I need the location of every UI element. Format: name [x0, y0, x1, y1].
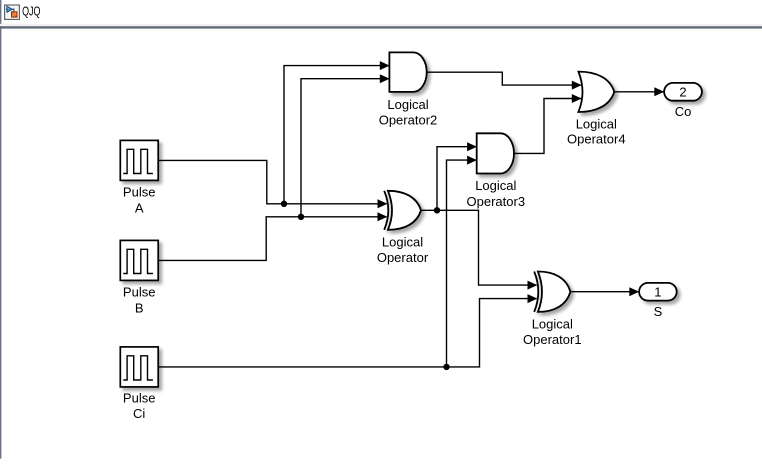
arrowhead XOR in1: [378, 199, 388, 208]
svg-text:Logical: Logical: [576, 116, 617, 131]
svg-text:Pulse: Pulse: [123, 185, 156, 200]
svg-text:Co: Co: [675, 104, 692, 119]
wire branch junction A to AND2 in1: [284, 66, 389, 204]
svg-text:Logical: Logical: [475, 178, 516, 193]
svg-text:2: 2: [679, 84, 686, 99]
arrowhead XOR1 in1: [528, 281, 538, 290]
svg-text:Operator: Operator: [377, 250, 429, 265]
svg-text:Pulse: Pulse: [123, 285, 156, 300]
wire AND3 out to OR4 in2: [514, 99, 581, 154]
arrowhead outport S: [629, 287, 639, 296]
wire XOR1 out to outport S: [570, 291, 638, 293]
wire branch junction B to AND2 in2: [301, 79, 389, 217]
svg-text:Logical: Logical: [387, 97, 428, 112]
junction node XOR output split: [434, 207, 440, 213]
svg-text:QJQ: QJQ: [22, 3, 40, 18]
arrowhead XOR1 in2: [528, 294, 538, 303]
svg-text:Logical: Logical: [532, 316, 573, 331]
arrowhead OR4 in1: [572, 81, 582, 90]
OR gate Logical Operator4: [578, 72, 614, 112]
outport block Co (2): [664, 83, 702, 101]
svg-text:S: S: [654, 304, 663, 319]
wire XOR out to XOR1 in1: [421, 210, 536, 285]
svg-text:Operator4: Operator4: [567, 132, 626, 147]
wire AND2 out to OR4 in1: [427, 72, 581, 85]
pulse generator block Pulse Ci: [120, 347, 158, 387]
AND gate Logical Operator3: [477, 133, 514, 173]
wire branch junction Ci to AND3 in2: [447, 160, 477, 367]
wire OR4 out to outport Co: [614, 91, 663, 93]
tab bar dark separator: [0, 26, 762, 28]
AND gate U Logical Operator2: [389, 52, 426, 92]
arrowhead OR4 in2: [572, 94, 582, 103]
junction node A split: [281, 201, 287, 207]
arrowhead AND3 in1: [467, 142, 477, 151]
svg-text:Operator1: Operator1: [523, 332, 582, 347]
wire Pulse B to XOR in2: [158, 217, 386, 261]
junction node B split: [298, 214, 304, 220]
junction node Ci split: [443, 364, 449, 370]
svg-text:1: 1: [654, 284, 661, 299]
svg-text:A: A: [135, 200, 144, 215]
XOR gate Logical Operator1: [534, 272, 570, 312]
arrowhead AND2 in1: [380, 61, 390, 70]
svg-text:B: B: [135, 300, 144, 315]
tab bar light rule: [0, 24, 762, 26]
tab icon (Simulink model icon): [5, 5, 20, 19]
svg-text:Ci: Ci: [133, 406, 145, 421]
svg-text:Pulse: Pulse: [123, 390, 156, 405]
arrowhead XOR in2: [378, 212, 388, 221]
arrowhead AND2 in2: [380, 74, 390, 83]
pulse generator block Pulse A: [120, 140, 158, 180]
pulse generator block Pulse B: [120, 240, 158, 280]
svg-text:Operator3: Operator3: [467, 194, 526, 209]
wire Pulse A to XOR in1: [158, 160, 386, 203]
arrowhead outport Co: [654, 87, 664, 96]
arrowhead AND3 in2: [467, 156, 477, 165]
svg-text:Operator2: Operator2: [379, 113, 438, 128]
XOR gate Logical Operator: [384, 191, 421, 230]
wire branch XOR out junction to AND3 in1: [437, 147, 476, 211]
svg-text:Logical: Logical: [382, 234, 423, 249]
window left border: [0, 0, 1, 459]
outport block S (1): [639, 283, 677, 301]
wire Pulse Ci to XOR1 in2: [158, 299, 536, 367]
